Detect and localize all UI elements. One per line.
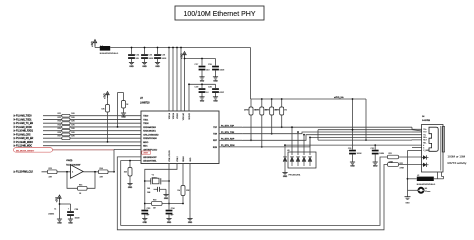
ground U10 [57, 219, 62, 225]
node P1_ETH_RXP [221, 137, 243, 141]
svg-text:TXEN: TXEN [143, 123, 149, 125]
wire TCT center tap [318, 130, 422, 131]
svg-text:1N4: 1N4 [147, 192, 150, 194]
capacitor C30 470P [208, 84, 225, 102]
svg-text:1%: 1% [284, 110, 287, 112]
svg-text:GND: GND [200, 80, 205, 82]
capacitor C33 18P [141, 208, 151, 224]
svg-text:XTAL1/CLKIN: XTAL1/CLKIN [168, 150, 171, 162]
resistor R21 270R [388, 153, 423, 163]
wire RCT line [318, 139, 422, 141]
svg-text:470P: 470P [219, 92, 224, 94]
wire rail drop to mid rail [250, 48, 252, 100]
svg-text:100N: 100N [379, 153, 384, 155]
capacitor C34 18P [166, 208, 176, 224]
svg-text:VDD1A2: VDD1A2 [182, 113, 185, 120]
svg-text:TXD1: TXD1 [143, 119, 148, 121]
wire U10 supply [48, 201, 71, 219]
wire MII bus row P1.9-MII_RXD0 [14, 124, 141, 129]
wire row8 line [412, 147, 422, 149]
svg-text:RBIAS: RBIAS [182, 155, 185, 161]
svg-text:R23: R23 [58, 121, 61, 123]
svg-text:U9: U9 [287, 150, 289, 152]
wire TXP line [219, 127, 422, 129]
svg-text:49R9: 49R9 [255, 110, 259, 112]
op-amp U7 LAN8720 PHY [140, 98, 219, 164]
svg-text:CRS_DV/MODE2: CRS_DV/MODE2 [143, 134, 158, 136]
wire shield line [284, 144, 422, 146]
wire feedback loop [66, 171, 96, 188]
crystal Y1 25MHz [145, 174, 169, 184]
wire RXN line [219, 137, 422, 147]
svg-text:R13: R13 [49, 168, 52, 170]
svg-text:2.1mm: 2.1mm [425, 191, 431, 193]
resistor R9 49R9 termination [275, 98, 287, 128]
wire U7 GND pin [187, 164, 192, 225]
svg-text:+3V3: +3V3 [92, 41, 94, 47]
svg-text:VDD2A: VDD2A [172, 112, 175, 119]
svg-text:10U: 10U [206, 69, 210, 71]
wire TXN line [219, 132, 422, 134]
svg-text:GND: GND [406, 202, 411, 204]
svg-text:GND: GND [164, 198, 169, 200]
svg-text:R26: R26 [58, 132, 61, 134]
wire MII bus row P1.4-MII_TX_EN [14, 121, 141, 126]
wire VDD pins from rail [168, 47, 182, 111]
svg-text:RXN: RXN [213, 147, 218, 149]
svg-text:GND: GND [350, 166, 355, 168]
svg-text:G-6975B: G-6975B [422, 120, 431, 122]
op-amp U10B inverter [66, 160, 83, 178]
resistor R15 1K [78, 184, 88, 195]
resistor R19 12K1 RBIAS [177, 164, 190, 205]
svg-text:BLM-BP5022/10H-G: BLM-BP5022/10H-G [100, 53, 119, 55]
svg-text:RX/TX activity: RX/TX activity [448, 161, 467, 165]
mounting hole H5 [408, 188, 431, 193]
svg-text:R25: R25 [58, 128, 61, 130]
svg-text:100N: 100N [357, 153, 362, 155]
svg-text:49R9: 49R9 [275, 110, 279, 112]
svg-text:R22: R22 [58, 117, 61, 119]
resistor R7 49R9 termination [255, 98, 267, 148]
svg-text:49R9: 49R9 [265, 110, 269, 112]
wire shield drop [407, 151, 409, 197]
node P1_ETH_TXN [221, 130, 243, 134]
svg-text:H5: H5 [425, 188, 427, 190]
wire C_GND row [408, 150, 423, 152]
svg-text:GND: GND [129, 66, 134, 68]
svg-text:VDD1A: VDD1A [168, 112, 171, 119]
svg-text:GND: GND [143, 222, 148, 224]
svg-text:+3V3: +3V3 [105, 93, 107, 99]
svg-text:RXD0/MODE0: RXD0/MODE0 [143, 127, 156, 129]
svg-text:TXN: TXN [213, 134, 217, 136]
wire mid rail VDD_A [251, 96, 367, 99]
svg-text:GND: GND [283, 176, 288, 178]
svg-text:GND: GND [200, 100, 205, 102]
node P1_ETH_RXN [221, 143, 243, 147]
resistor R13 22R [48, 168, 58, 179]
power +3V3 (top left) [92, 40, 97, 47]
svg-text:RXD1/MODE1: RXD1/MODE1 [143, 131, 156, 133]
wire MII bus row P1.13-MII_MDIO [14, 140, 141, 144]
svg-text:PHC2BC2HA: PHC2BC2HA [289, 174, 301, 177]
svg-text:+3V3: +3V3 [182, 53, 184, 59]
svg-text:GND: GND [213, 100, 218, 102]
inductor L2 [408, 175, 436, 186]
node MII_MODE_RESET (red net label) [14, 148, 115, 153]
resistor R14 22R [99, 168, 109, 179]
svg-text:100M or 10M: 100M or 10M [448, 154, 466, 158]
svg-text:R24: R24 [58, 124, 61, 126]
wire LED1 loop [117, 157, 388, 230]
svg-text:100N: 100N [75, 217, 80, 219]
svg-text:1%: 1% [177, 190, 180, 192]
inductor L1 [100, 46, 119, 56]
capacitor C36 100N [67, 204, 80, 225]
svg-text:MDC: MDC [143, 146, 148, 148]
wire MII bus row P1.10-MII_RXD1 [14, 128, 141, 133]
svg-text:10U: 10U [135, 58, 139, 60]
svg-text:BLM-BP5022/10H-G: BLM-BP5022/10H-G [417, 184, 436, 186]
pin nRST highlight [142, 151, 151, 155]
chassis ground [405, 197, 411, 205]
svg-text:GND: GND [142, 66, 147, 68]
wire XTAL1 node [168, 164, 170, 210]
svg-text:100: 100 [147, 188, 150, 190]
svg-text:U10B2: U10B2 [48, 214, 55, 216]
svg-text:P1.12-MII_MDC: P1.12-MII_MDC [16, 146, 33, 148]
text LED legend [448, 154, 467, 165]
svg-text:100N: 100N [148, 58, 153, 60]
svg-text:100N: 100N [219, 69, 224, 71]
wire MII bus row P1.8-MII_CRS [14, 132, 141, 137]
resistor R8 49R9 termination [265, 98, 277, 135]
svg-text:VDDIO: VDDIO [177, 112, 179, 118]
svg-text:GND: GND [57, 223, 62, 225]
wire +3V3 to VDDIO/caps [184, 58, 216, 111]
svg-text:GND: GND [213, 80, 218, 82]
svg-text:+3V3: +3V3 [57, 196, 59, 202]
wire top rail [110, 47, 250, 49]
svg-text:R14: R14 [100, 168, 103, 170]
svg-text:14: 14 [54, 209, 56, 211]
connector J4 RJ45 G-6975B [422, 116, 445, 172]
capacitor C25 100N [141, 47, 154, 68]
wire MII bus row P1.12-MII_MDC [14, 144, 141, 148]
svg-text:TXD0: TXD0 [143, 116, 148, 118]
capacitor C31 100N [348, 98, 362, 168]
svg-text:R21: R21 [389, 153, 392, 155]
power +3V3 (U10 supply) [57, 195, 62, 202]
resistor R22 270R [388, 163, 423, 170]
wire MII bus row P1.1-MII_TXD1 [14, 117, 141, 122]
svg-text:GND: GND [128, 187, 133, 189]
resistor R18 10K (nINTSEL pull) [124, 160, 133, 189]
svg-text:LED1/REGOFF: LED1/REGOFF [143, 157, 157, 159]
node P1_ETH_TXP [221, 124, 243, 128]
svg-text:XTAL2: XTAL2 [176, 156, 179, 162]
svg-text:MII_MODE_RESET: MII_MODE_RESET [16, 150, 35, 152]
capacitor C24 10U [128, 47, 140, 68]
svg-text:VDDCR: VDDCR [189, 112, 191, 119]
svg-text:R21: R21 [58, 113, 61, 115]
svg-text:LAN8720: LAN8720 [140, 102, 150, 105]
svg-text:LED2/nINTSEL: LED2/nINTSEL [143, 161, 157, 163]
svg-text:R20: R20 [153, 200, 156, 202]
capacitor C26 100N [154, 47, 167, 68]
wire nINT/REFCLKO to clock net [113, 149, 141, 172]
svg-text:MDIO: MDIO [143, 142, 149, 144]
svg-text:7: 7 [68, 209, 69, 211]
svg-text:R27: R27 [58, 136, 61, 138]
wire LED2 loop [121, 157, 388, 225]
resistor R17 pull-down [117, 93, 130, 128]
svg-text:GND: GND [68, 223, 73, 225]
svg-text:49R9: 49R9 [244, 110, 248, 112]
capacitor C32 100N [371, 144, 385, 167]
resistor R16 10K pull-up [101, 92, 109, 143]
title box [175, 6, 264, 20]
resistor R20 1M [145, 200, 183, 210]
svg-text:GND: GND [190, 157, 192, 162]
capacitor C29 1U [195, 83, 209, 102]
capacitor C28 100N [208, 59, 225, 83]
svg-text:GND: GND [188, 222, 193, 224]
wire XTAL2 node [144, 164, 177, 210]
capacitor C27 10U [195, 58, 211, 83]
diode array U8 PHC2BC2HA [282, 126, 316, 178]
svg-text:RXER/PHYAD0: RXER/PHYAD0 [143, 137, 157, 140]
wire +3V3 to L1 [95, 44, 100, 48]
svg-text:xVDD_HA: xVDD_HA [334, 96, 344, 99]
wire MII bus row P1.6-MII_RX_ER [14, 136, 141, 141]
capacitor C35 100N [147, 187, 169, 200]
svg-text:U10(B): U10(B) [66, 160, 73, 162]
resistor R6 49R9 termination [244, 99, 256, 141]
wire RXP line [219, 135, 422, 141]
svg-text:270R: 270R [400, 167, 405, 169]
wire VDDCR branch [188, 83, 215, 111]
svg-text:GND: GND [373, 166, 378, 168]
wire rail corner to RCT line [365, 99, 367, 141]
wire RMII_CLK input [14, 170, 71, 174]
wire TCT feed [317, 130, 319, 140]
wire connector shield stubs [434, 172, 444, 179]
svg-text:100/10M Ethernet PHY: 100/10M Ethernet PHY [184, 11, 256, 18]
svg-text:GND: GND [167, 222, 172, 224]
svg-text:12K1: 12K1 [186, 190, 190, 192]
wire MII bus row P1.0-MII_TXD0 [14, 113, 141, 118]
svg-text:GND: GND [155, 66, 160, 68]
wire inverter output [83, 171, 114, 173]
svg-text:100N: 100N [161, 58, 166, 60]
svg-text:R15: R15 [79, 184, 82, 186]
power +3V3 (over U7) [182, 52, 187, 59]
svg-text:nRST: nRST [143, 153, 149, 155]
svg-text:GND: GND [121, 117, 126, 119]
svg-text:P1.15-RMII_CLK: P1.15-RMII_CLK [16, 172, 34, 174]
